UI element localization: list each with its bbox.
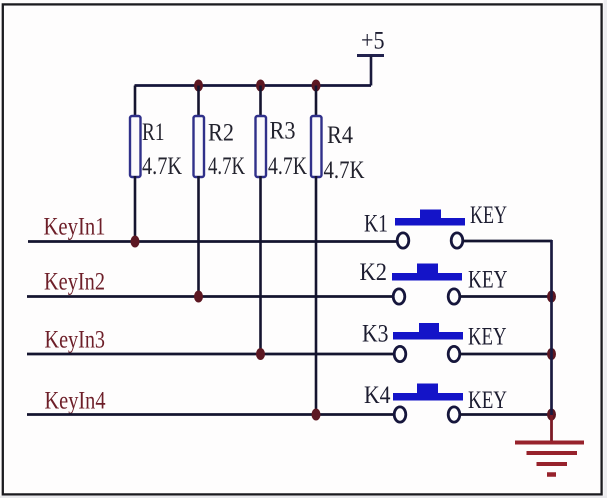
wire R3 top [259, 86, 262, 118]
node dot KeyIn1-R1 [131, 236, 140, 248]
node dot KeyIn3-R3 [256, 348, 265, 360]
wire KeyIn3 [27, 353, 395, 356]
switch K2 plunger [417, 264, 438, 274]
node dot KeyIn4-R4 [312, 409, 321, 421]
resistor R1 [130, 116, 141, 177]
wire K3 to right bus [460, 353, 552, 356]
switch K4 left contact [394, 407, 406, 422]
switch K2 left contact [393, 289, 405, 304]
svg-text:4.7K: 4.7K [324, 157, 365, 184]
svg-text:K2: K2 [360, 259, 388, 286]
svg-text:+5: +5 [361, 28, 385, 55]
svg-text:K1: K1 [364, 211, 388, 238]
wire R1 top [134, 86, 137, 118]
wire R4 bottom [315, 176, 318, 415]
switch K3 right contact [448, 346, 460, 361]
svg-text:KeyIn2: KeyIn2 [44, 267, 105, 296]
switch K3 plunger [419, 323, 439, 333]
wire K1 to right bus [463, 240, 552, 243]
switch K1 right contact [451, 233, 463, 248]
svg-text:4.7K: 4.7K [208, 153, 245, 180]
node dot KeyIn2-R2 [194, 291, 203, 303]
svg-text:K3: K3 [362, 321, 389, 348]
switch K2 right contact [448, 289, 460, 304]
resistor R2 [194, 116, 205, 177]
svg-text:KEY: KEY [468, 322, 507, 351]
node dot bus-R3 [256, 80, 265, 92]
svg-text:4.7K: 4.7K [142, 153, 182, 180]
resistor R4 [311, 116, 322, 177]
svg-text:KEY: KEY [468, 265, 508, 294]
resistor R3 [256, 116, 267, 177]
svg-text:R3: R3 [270, 118, 296, 145]
svg-text:R1: R1 [142, 119, 165, 146]
wire R1 bottom [134, 176, 137, 242]
wire +5 to top bus [370, 56, 373, 86]
switch K1 left contact [397, 233, 409, 248]
switch K1 plunger [420, 210, 441, 219]
power +5 bar symbol [357, 54, 384, 57]
wire R3 bottom [259, 176, 262, 354]
svg-text:KEY: KEY [468, 385, 507, 414]
wire K2 to right bus [460, 295, 552, 298]
svg-text:K4: K4 [364, 382, 391, 409]
switch K2 body bar [392, 273, 462, 281]
wire K4 to right bus [460, 413, 552, 416]
wire ground lead [550, 415, 553, 441]
switch K3 left contact [394, 346, 406, 361]
svg-text:R4: R4 [327, 122, 353, 149]
switch K4 plunger [417, 384, 438, 394]
wire right bus vertical [550, 240, 553, 415]
svg-text:4.7K: 4.7K [268, 153, 307, 180]
switch K3 body bar [393, 332, 463, 340]
svg-text:R2: R2 [208, 120, 234, 147]
wire KeyIn1 [28, 240, 397, 243]
svg-text:KeyIn1: KeyIn1 [44, 212, 106, 241]
wire top bus [135, 84, 372, 87]
wire R4 top [315, 86, 318, 118]
node dot right bus K2 [547, 291, 556, 303]
svg-text:KEY: KEY [470, 200, 507, 229]
node dot right bus K4 (ground tap) [547, 409, 556, 421]
ground [515, 443, 584, 475]
switch K1 body bar [395, 218, 465, 226]
wire KeyIn4 [27, 413, 395, 416]
wire KeyIn2 [27, 295, 394, 298]
wire R2 bottom [197, 176, 200, 297]
wire R2 top [197, 86, 200, 118]
switch K4 body bar [393, 393, 463, 401]
node dot bus-R2 [194, 80, 203, 92]
node dot bus-R4 [312, 80, 321, 92]
node dot right bus K3 [547, 348, 556, 360]
svg-text:KeyIn4: KeyIn4 [45, 386, 106, 415]
svg-text:KeyIn3: KeyIn3 [45, 325, 106, 354]
switch K4 right contact [448, 407, 460, 422]
